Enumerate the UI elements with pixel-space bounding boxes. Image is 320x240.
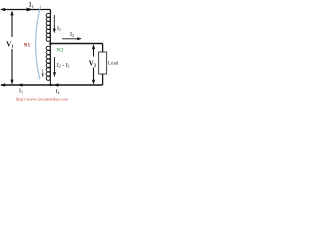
input terminal arrow top-left bbox=[0, 8, 5, 12]
svg-text:N2: N2 bbox=[57, 47, 64, 53]
N1 brace arc (blue) bbox=[36, 6, 41, 80]
svg-text:V2: V2 bbox=[89, 60, 97, 68]
current arrow I1 on bottom wire bbox=[18, 83, 23, 86]
wire load drop (right) bbox=[102, 44, 104, 53]
current arrow I2-I1 beside lower winding bbox=[53, 57, 56, 77]
svg-text:http://www.circuitstoday.com: http://www.circuitstoday.com bbox=[16, 97, 68, 102]
load box bbox=[99, 52, 107, 74]
svg-text:N1: N1 bbox=[24, 42, 31, 48]
winding bottom junction node bbox=[49, 84, 51, 86]
V1 annotation arrow (left) bbox=[10, 10, 13, 84]
svg-text:V1: V1 bbox=[6, 41, 14, 49]
wire top (supply to winding top) bbox=[1, 10, 50, 14]
V2 annotation arrow bbox=[92, 44, 95, 85]
winding lower section (common winding) bbox=[46, 46, 50, 85]
wire load to bottom bbox=[102, 74, 104, 85]
current arrow I1 on top wire bbox=[27, 8, 33, 12]
tap junction node bbox=[49, 42, 52, 45]
svg-text:I1: I1 bbox=[19, 89, 23, 95]
winding upper section (series winding) bbox=[46, 13, 50, 46]
current arrow I2 on bottom wire bbox=[54, 83, 59, 86]
svg-text:I2: I2 bbox=[70, 32, 74, 38]
svg-text:I2: I2 bbox=[56, 89, 60, 95]
svg-text:I2 - I1: I2 - I1 bbox=[57, 63, 70, 69]
current arrow I1 beside upper winding bbox=[53, 15, 56, 33]
wire bottom (return) bbox=[1, 84, 103, 86]
svg-text:I1: I1 bbox=[29, 1, 34, 9]
svg-text:Load: Load bbox=[108, 62, 119, 67]
svg-text:I1: I1 bbox=[57, 26, 61, 32]
current arrow I2 above tap wire bbox=[62, 37, 82, 40]
input terminal arrow bottom-left bbox=[0, 83, 5, 87]
wire tap to load bbox=[50, 43, 102, 45]
flux arrow at winding bottom bbox=[42, 69, 44, 77]
